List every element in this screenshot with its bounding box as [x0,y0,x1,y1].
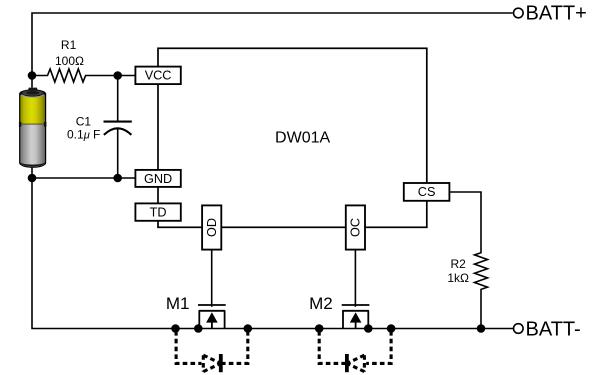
svg-text:100Ω: 100Ω [55,54,84,68]
svg-text:OD: OD [205,218,219,237]
svg-text:M2: M2 [309,294,333,313]
svg-text:0.1μ F: 0.1μ F [67,128,100,142]
svg-text:R1: R1 [61,38,77,52]
svg-text:VCC: VCC [145,69,172,83]
svg-text:M1: M1 [166,294,190,313]
svg-text:BATT+: BATT+ [526,3,587,25]
svg-text:C1: C1 [76,115,92,129]
svg-text:GND: GND [144,172,172,186]
svg-text:R2: R2 [451,257,467,271]
svg-text:1kΩ: 1kΩ [447,271,469,285]
svg-text:DW01A: DW01A [275,130,330,147]
svg-text:OC: OC [349,218,363,237]
svg-text:BATT-: BATT- [526,318,581,340]
svg-text:TD: TD [150,205,167,219]
svg-text:CS: CS [418,185,436,199]
